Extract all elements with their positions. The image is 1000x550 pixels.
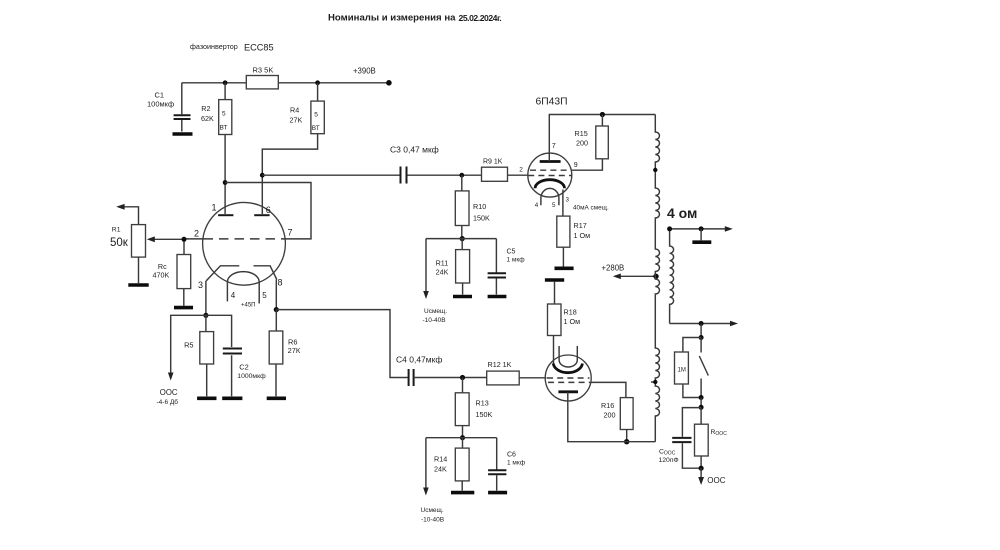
ground Rc: [174, 289, 193, 308]
node junction anode-grid coupling: [223, 180, 228, 185]
capacitor C3 0,47 мкф: [390, 145, 439, 184]
resistor R11 24K: [436, 239, 470, 283]
resistor R18 1 Ом: [548, 282, 581, 364]
svg-text:+390В: +390В: [353, 67, 376, 76]
capacitor C2 1000мкф: [206, 315, 266, 396]
svg-text:24K: 24K: [434, 465, 447, 474]
capacitor Cooc 120пФ: [659, 408, 702, 469]
node junction Rooc top: [699, 405, 704, 410]
capacitor C6 1 мкф: [488, 438, 526, 491]
svg-text:+280В: +280В: [602, 264, 625, 273]
node junction bias 2: [460, 435, 465, 440]
ground R17: [555, 247, 574, 268]
svg-text:R13: R13: [476, 399, 489, 408]
svg-text:-10-40В: -10-40В: [421, 517, 444, 524]
tube V2 6П43П upper: [519, 141, 578, 209]
svg-text:2: 2: [194, 229, 199, 239]
svg-text:R11: R11: [436, 259, 449, 268]
ground R11: [453, 283, 472, 297]
wire R10 to bias node 1: [461, 226, 463, 239]
svg-text:62K: 62K: [201, 114, 214, 123]
svg-text:+45П: +45П: [241, 303, 256, 309]
svg-text:27K: 27K: [290, 116, 303, 125]
svg-text:4 ом: 4 ом: [667, 205, 697, 221]
svg-text:25.02.2024г.: 25.02.2024г.: [459, 13, 502, 23]
node junction R15 top: [600, 112, 605, 117]
node junction R2 top: [223, 80, 228, 85]
svg-text:24K: 24K: [436, 268, 449, 277]
switch S1: [699, 338, 708, 398]
node +390В terminal: [353, 67, 392, 86]
ground output: [692, 229, 711, 242]
resistor R3 5K: [246, 66, 278, 89]
svg-text:фазоинвертор: фазоинвертор: [190, 42, 238, 51]
wire OOC feedback branch: [168, 315, 206, 380]
svg-text:C2: C2: [239, 362, 248, 371]
tube V1 ECC85: [194, 202, 293, 308]
svg-text:6П43П: 6П43П: [536, 97, 568, 108]
svg-text:1 Ом: 1 Ом: [564, 317, 581, 326]
node junction R10 tap: [459, 173, 464, 178]
wire OOC output arrow: [698, 468, 704, 485]
ground R5: [197, 364, 216, 398]
svg-text:C6: C6: [507, 452, 516, 459]
wire anode V2 to transformer: [549, 115, 655, 162]
wire R2 to tube pin 1: [224, 135, 226, 215]
capacitor C4 0,47мкф: [396, 355, 442, 387]
transformer secondary winding: [670, 229, 674, 324]
svg-text:4: 4: [535, 202, 539, 209]
svg-text:Uсмещ.: Uсмещ.: [421, 507, 444, 514]
capacitor C1 100мкф: [147, 83, 191, 132]
label OOC -4-6 Дб: [157, 388, 179, 406]
svg-text:1М: 1М: [678, 368, 686, 374]
ground R14: [451, 481, 474, 493]
svg-text:150K: 150K: [476, 410, 493, 419]
title: [328, 13, 501, 24]
svg-text:7: 7: [288, 228, 293, 238]
svg-text:1 Ом: 1 Ом: [574, 231, 591, 240]
resistor R17 1 Ом: [557, 216, 590, 247]
resistor Rooc: [695, 408, 728, 469]
ground R6: [267, 364, 286, 398]
svg-text:1: 1: [212, 203, 217, 213]
wire grid pin2 to wiper junction: [184, 238, 203, 240]
ground C6: [488, 491, 507, 495]
svg-text:200: 200: [604, 411, 616, 420]
svg-text:OOC: OOC: [707, 476, 725, 485]
resistor R10 150K: [455, 175, 490, 225]
potentiometer R1 50к: [110, 204, 184, 257]
node junction bias 1: [460, 236, 465, 241]
wire C3 run: [262, 174, 481, 176]
svg-text:9: 9: [574, 162, 578, 169]
node junction C3 tap: [260, 173, 265, 178]
label Исмещ -10-40В (1): [423, 308, 448, 324]
wire cathode V2 to R17: [562, 190, 564, 217]
node primary tap lower: [651, 380, 658, 384]
wire +390V rail: [182, 82, 389, 84]
svg-text:-4-6 Дб: -4-6 Дб: [157, 398, 179, 406]
svg-text:3: 3: [566, 197, 570, 204]
svg-text:50к: 50к: [110, 237, 129, 249]
wire output top: [667, 226, 733, 232]
wire R9 to grid V2: [508, 174, 529, 176]
svg-text:R18: R18: [564, 308, 577, 317]
svg-text:R1: R1: [112, 227, 121, 234]
wire output bottom: [670, 321, 738, 327]
resistor R9 1K: [482, 159, 508, 182]
wire bias node 2: [426, 437, 497, 439]
node junction cathode 1: [203, 313, 208, 318]
node junction R4 top: [315, 80, 320, 85]
svg-text:C1: C1: [155, 91, 165, 100]
tube V3 6П43П lower: [545, 346, 591, 401]
svg-text:R10: R10: [473, 202, 486, 211]
svg-text:1 мкф: 1 мкф: [507, 460, 526, 467]
arrow Исмещ bias 1: [423, 239, 429, 299]
svg-text:470K: 470K: [153, 270, 170, 279]
wire C4 to R12: [414, 377, 487, 379]
wire to Rooc network: [700, 398, 702, 408]
svg-text:100мкф: 100мкф: [147, 100, 174, 109]
label Исмещ -10-40В (2): [421, 507, 445, 524]
svg-text:C5: C5: [507, 249, 516, 256]
svg-text:Uсмещ.: Uсмещ.: [424, 308, 447, 315]
wire grid2 V3 to R16: [591, 382, 626, 397]
ground R1: [128, 257, 148, 285]
svg-text:7: 7: [552, 141, 556, 150]
ground C2: [222, 396, 242, 400]
resistor R4 27K: [290, 83, 325, 134]
svg-text:27К: 27К: [288, 346, 301, 355]
wire output node down: [700, 324, 702, 338]
resistor R12 1K: [487, 360, 520, 385]
node junction R13 tap: [460, 375, 465, 380]
svg-text:R14: R14: [434, 455, 447, 464]
svg-text:Номиналы и измерения на: Номиналы и измерения на: [328, 13, 456, 24]
resistor R5: [184, 315, 214, 364]
resistor R16 200: [601, 398, 633, 442]
ground R18: [545, 278, 564, 282]
wire +280V tap arrow: [613, 274, 656, 280]
node junction Rooc bottom: [699, 466, 704, 471]
resistor R13 150K: [455, 378, 492, 426]
wire pin8 node to C4: [276, 310, 408, 378]
transformer primary winding: [655, 115, 659, 442]
ground C5: [488, 295, 507, 299]
node junction switch bottom: [699, 395, 704, 400]
resistor Rc 470K: [153, 239, 191, 288]
svg-text:120пФ: 120пФ: [659, 457, 679, 464]
svg-text:ECC85: ECC85: [244, 43, 274, 53]
node junction switch top: [699, 335, 704, 340]
svg-text:R2: R2: [201, 104, 210, 113]
svg-text:5: 5: [552, 202, 556, 209]
svg-text:R17: R17: [574, 221, 587, 230]
svg-text:-10-40В: -10-40В: [423, 317, 446, 324]
svg-text:R12 1K: R12 1K: [488, 360, 512, 369]
wire cathode pin3 down: [205, 281, 207, 316]
node transformer center tap: [653, 274, 658, 279]
svg-text:4: 4: [231, 291, 236, 300]
wire anode V3 to transformer bottom: [568, 392, 656, 442]
svg-text:C4 0,47мкф: C4 0,47мкф: [396, 355, 442, 365]
node junction R16 bottom: [624, 439, 629, 444]
svg-text:ВТ: ВТ: [312, 125, 320, 132]
capacitor C5 1 мкф: [488, 239, 526, 295]
resistor R2 62K: [201, 83, 232, 135]
resistor R6 27К: [269, 310, 301, 364]
resistor R14 24K: [434, 438, 469, 481]
svg-text:R16: R16: [601, 401, 614, 410]
svg-text:3: 3: [198, 280, 203, 290]
svg-text:1000мкф: 1000мкф: [237, 373, 266, 380]
resistor R15 200: [571, 115, 608, 171]
svg-text:R4: R4: [290, 106, 299, 115]
svg-text:C3 0,47 мкф: C3 0,47 мкф: [390, 145, 439, 155]
svg-text:150K: 150K: [473, 214, 490, 223]
svg-text:R5: R5: [184, 340, 193, 349]
node junction cathode 2: [274, 307, 279, 312]
svg-text:6: 6: [266, 205, 271, 215]
arrow Исмещ bias 2: [423, 438, 429, 496]
wire R4 to tube pin 6: [262, 134, 317, 214]
node junction wiper: [182, 237, 187, 242]
svg-text:200: 200: [576, 139, 588, 148]
svg-text:2: 2: [519, 167, 523, 174]
svg-text:5: 5: [314, 112, 318, 119]
svg-text:OOC: OOC: [160, 388, 178, 397]
svg-text:R6: R6: [288, 338, 297, 347]
wire bias node 1: [426, 238, 496, 240]
svg-text:1 мкф: 1 мкф: [507, 257, 526, 264]
svg-text:8: 8: [278, 278, 283, 288]
svg-text:5: 5: [222, 111, 226, 118]
svg-text:R9 1K: R9 1K: [483, 159, 503, 166]
svg-text:ВТ: ВТ: [220, 125, 228, 132]
wire R12 to grid V3: [519, 377, 546, 379]
ground C1: [173, 132, 193, 136]
svg-text:5: 5: [262, 291, 267, 300]
wire pin 7 coupling: [225, 183, 311, 239]
svg-text:R15: R15: [575, 129, 588, 138]
node primary tap upper: [653, 168, 657, 172]
resistor 1M: [675, 338, 702, 398]
svg-text:RООС: RООС: [711, 429, 728, 437]
svg-text:СООС: СООС: [659, 449, 676, 457]
svg-text:40мА смещ.: 40мА смещ.: [573, 205, 609, 212]
svg-text:R3 5K: R3 5K: [253, 66, 274, 75]
wire R13 to bias node 2: [462, 426, 464, 438]
wire cathode pin8 down: [275, 280, 277, 310]
